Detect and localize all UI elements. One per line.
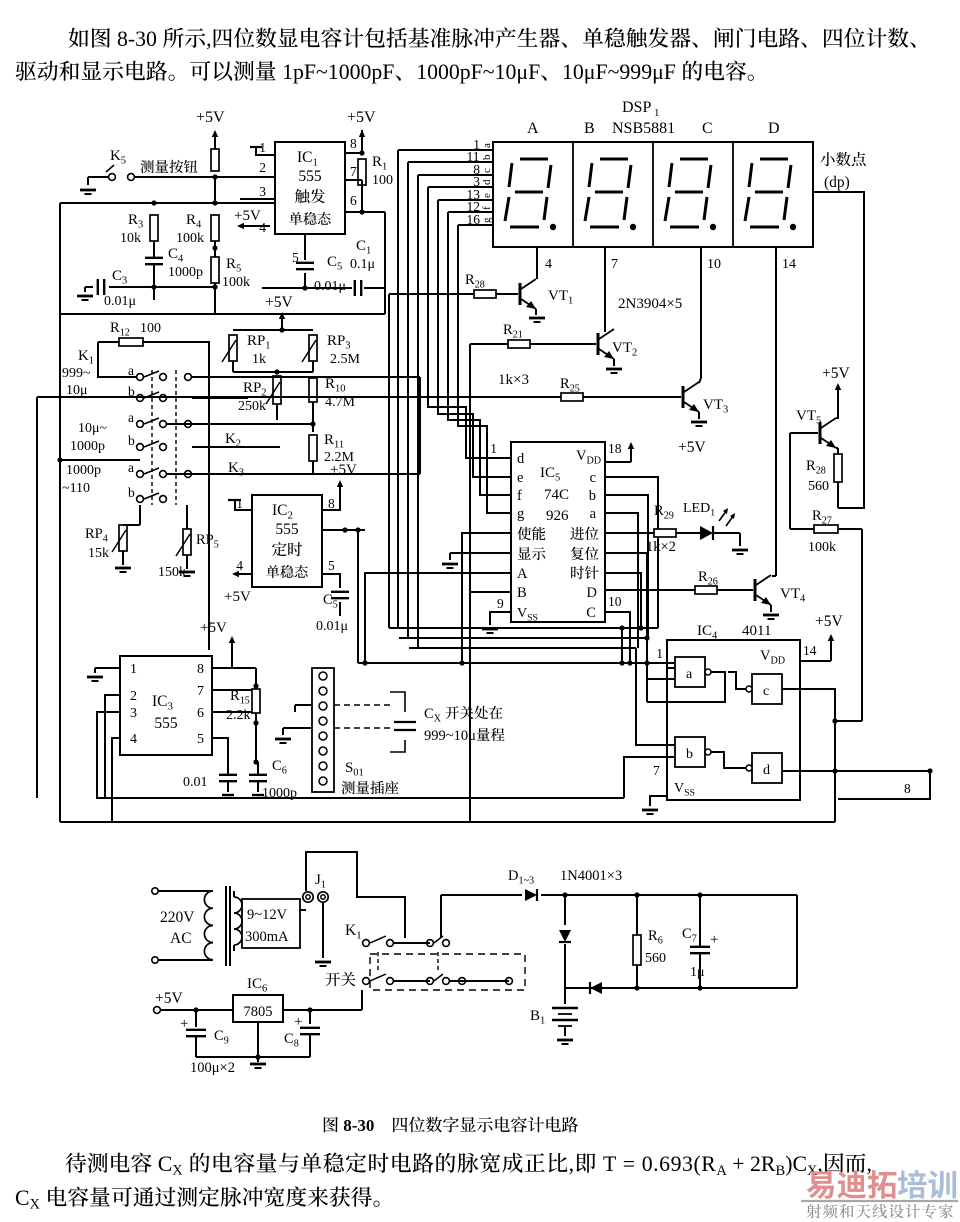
svg-text:B: B bbox=[517, 585, 527, 601]
svg-text:5: 5 bbox=[197, 732, 204, 747]
svg-text:1000p: 1000p bbox=[66, 463, 101, 478]
svg-text:1: 1 bbox=[321, 880, 326, 891]
svg-text:3: 3 bbox=[168, 701, 173, 713]
svg-text:0.01μ: 0.01μ bbox=[314, 279, 346, 294]
svg-text:RP: RP bbox=[243, 380, 261, 396]
svg-text:100k: 100k bbox=[222, 275, 250, 290]
svg-text:R: R bbox=[226, 256, 236, 272]
svg-text:g: g bbox=[481, 217, 493, 223]
svg-text:B: B bbox=[530, 1008, 540, 1024]
svg-text:6: 6 bbox=[282, 766, 287, 777]
svg-text:R: R bbox=[648, 928, 658, 944]
svg-text:4: 4 bbox=[800, 594, 806, 605]
svg-text:+5V: +5V bbox=[200, 620, 227, 636]
svg-text:4: 4 bbox=[236, 558, 243, 573]
svg-text:100: 100 bbox=[140, 321, 161, 336]
svg-text:g: g bbox=[517, 506, 524, 522]
svg-text:5: 5 bbox=[236, 264, 241, 275]
svg-text:C: C bbox=[15, 1186, 30, 1210]
svg-text:S: S bbox=[345, 760, 353, 776]
svg-text:3: 3 bbox=[130, 706, 137, 721]
svg-text:100μ×2: 100μ×2 bbox=[190, 1060, 235, 1076]
svg-text:R: R bbox=[698, 569, 708, 585]
svg-text:28: 28 bbox=[816, 466, 826, 477]
svg-text:f: f bbox=[517, 488, 522, 504]
svg-text:C: C bbox=[323, 592, 333, 608]
svg-text:RP: RP bbox=[247, 333, 265, 349]
svg-text:D: D bbox=[508, 868, 518, 884]
svg-text:R: R bbox=[186, 212, 196, 228]
svg-text:15k: 15k bbox=[88, 546, 109, 561]
svg-text:7: 7 bbox=[611, 257, 618, 272]
svg-text:C: C bbox=[112, 268, 122, 284]
svg-text:4: 4 bbox=[178, 254, 184, 265]
svg-text:+5V: +5V bbox=[815, 613, 843, 630]
svg-text:e: e bbox=[517, 470, 523, 486]
svg-text:IC: IC bbox=[247, 976, 262, 992]
svg-text:555: 555 bbox=[298, 168, 322, 185]
svg-text:X: X bbox=[434, 714, 442, 725]
svg-text:29: 29 bbox=[664, 511, 674, 522]
svg-text:7: 7 bbox=[197, 684, 204, 699]
svg-text:V: V bbox=[760, 648, 771, 664]
svg-text:1μ: 1μ bbox=[690, 965, 705, 980]
svg-text:C: C bbox=[168, 246, 178, 262]
svg-text:999~10μ: 999~10μ bbox=[424, 728, 476, 744]
svg-text:250k: 250k bbox=[238, 399, 266, 414]
svg-text:C: C bbox=[214, 1028, 224, 1044]
svg-text:RP: RP bbox=[196, 532, 214, 548]
svg-text:R: R bbox=[372, 154, 382, 170]
svg-text:8-30: 8-30 bbox=[117, 27, 157, 51]
svg-text:IC: IC bbox=[297, 149, 313, 166]
svg-text:NSB5881: NSB5881 bbox=[612, 120, 675, 137]
svg-text:C: C bbox=[284, 1031, 294, 1047]
svg-text:560: 560 bbox=[808, 479, 829, 494]
svg-text:220V: 220V bbox=[160, 909, 195, 926]
svg-text:a: a bbox=[128, 410, 134, 425]
svg-text:d: d bbox=[481, 179, 493, 185]
svg-text:0.01μ: 0.01μ bbox=[316, 619, 348, 634]
svg-text:c: c bbox=[590, 470, 596, 486]
svg-text:1: 1 bbox=[568, 296, 573, 307]
svg-text:7: 7 bbox=[350, 164, 357, 179]
svg-text:7: 7 bbox=[653, 763, 660, 778]
svg-text:c: c bbox=[763, 684, 769, 699]
svg-text:3: 3 bbox=[723, 405, 728, 416]
svg-text:R: R bbox=[324, 432, 334, 448]
svg-text:C: C bbox=[158, 1152, 173, 1176]
svg-text:1: 1 bbox=[89, 356, 94, 367]
svg-text:RP: RP bbox=[327, 333, 345, 349]
svg-text:8-30: 8-30 bbox=[343, 1116, 374, 1135]
svg-text:16: 16 bbox=[467, 212, 481, 227]
svg-text:b: b bbox=[481, 154, 493, 160]
svg-text:2: 2 bbox=[130, 689, 137, 704]
svg-text:100k: 100k bbox=[176, 231, 204, 246]
svg-text:14: 14 bbox=[803, 643, 817, 658]
svg-text:IC: IC bbox=[272, 502, 288, 519]
svg-text:6: 6 bbox=[350, 193, 357, 208]
svg-text:27: 27 bbox=[822, 516, 832, 527]
svg-text:=: = bbox=[623, 1152, 636, 1176]
svg-text:)C: )C bbox=[785, 1152, 807, 1176]
svg-text:C: C bbox=[702, 120, 713, 137]
svg-text:+: + bbox=[732, 1152, 744, 1176]
svg-text:B: B bbox=[776, 1163, 786, 1179]
svg-text:100: 100 bbox=[372, 173, 393, 188]
svg-text:555: 555 bbox=[275, 521, 299, 538]
svg-text:5: 5 bbox=[816, 416, 821, 427]
svg-text:2N3904×5: 2N3904×5 bbox=[618, 296, 682, 312]
svg-text:6: 6 bbox=[658, 936, 663, 947]
svg-text:7: 7 bbox=[692, 934, 697, 945]
svg-text:9~12V: 9~12V bbox=[247, 907, 288, 923]
svg-text:K: K bbox=[110, 148, 121, 164]
svg-text:+5V: +5V bbox=[155, 990, 183, 1007]
svg-text:R: R bbox=[654, 503, 664, 519]
svg-text:a: a bbox=[481, 143, 493, 148]
svg-text:999~: 999~ bbox=[62, 366, 91, 381]
svg-text:10μ: 10μ bbox=[66, 383, 88, 398]
svg-text:6: 6 bbox=[197, 706, 204, 721]
svg-text:K: K bbox=[345, 922, 357, 939]
svg-text:2: 2 bbox=[259, 160, 266, 175]
svg-text:A: A bbox=[716, 1163, 727, 1179]
svg-text:9: 9 bbox=[224, 1036, 229, 1047]
svg-text:VT: VT bbox=[780, 586, 800, 602]
svg-text:DD: DD bbox=[587, 456, 602, 467]
svg-text:74C: 74C bbox=[544, 487, 569, 503]
svg-text:0.1μ: 0.1μ bbox=[350, 257, 375, 272]
svg-text:6: 6 bbox=[262, 984, 267, 995]
svg-text:,: , bbox=[206, 27, 211, 51]
svg-text:VT: VT bbox=[548, 288, 568, 304]
svg-text:25: 25 bbox=[570, 384, 580, 395]
svg-text:B: B bbox=[584, 120, 595, 137]
svg-text:C: C bbox=[356, 238, 366, 254]
svg-text:LED: LED bbox=[683, 501, 710, 516]
svg-text:b: b bbox=[686, 747, 693, 762]
svg-text:100k: 100k bbox=[808, 540, 836, 555]
svg-text:C: C bbox=[272, 758, 282, 774]
svg-text:8: 8 bbox=[904, 781, 911, 796]
svg-text:926: 926 bbox=[546, 508, 569, 524]
svg-text:+5V: +5V bbox=[224, 589, 251, 605]
svg-text:1: 1 bbox=[356, 930, 361, 942]
svg-text:D: D bbox=[587, 585, 597, 601]
svg-text:1k: 1k bbox=[252, 352, 266, 367]
svg-text:A: A bbox=[527, 120, 539, 137]
svg-text:C: C bbox=[682, 926, 692, 942]
svg-text:C: C bbox=[424, 706, 434, 722]
svg-text:12: 12 bbox=[120, 328, 130, 339]
svg-text:10μ~: 10μ~ bbox=[78, 421, 108, 436]
svg-text:+5V: +5V bbox=[822, 365, 850, 382]
svg-text:3: 3 bbox=[138, 220, 143, 231]
svg-text:8: 8 bbox=[350, 136, 357, 151]
svg-text:1: 1 bbox=[382, 162, 387, 173]
svg-text:4: 4 bbox=[196, 220, 202, 231]
svg-text:2: 2 bbox=[288, 510, 293, 522]
svg-text:1000p: 1000p bbox=[168, 265, 203, 280]
svg-text:1: 1 bbox=[490, 441, 497, 456]
svg-text:(dp): (dp) bbox=[824, 174, 850, 191]
svg-text:c: c bbox=[481, 168, 493, 173]
svg-text:a: a bbox=[128, 460, 134, 475]
svg-text:+5V: +5V bbox=[678, 439, 706, 456]
svg-text:1000pF~10μF: 1000pF~10μF bbox=[416, 60, 540, 84]
svg-text:21: 21 bbox=[513, 330, 523, 341]
svg-text:8: 8 bbox=[328, 496, 335, 511]
svg-text:1: 1 bbox=[313, 157, 318, 169]
svg-text:f: f bbox=[481, 206, 493, 210]
svg-text:V: V bbox=[576, 448, 587, 464]
svg-text:C: C bbox=[586, 605, 596, 621]
svg-text:2R: 2R bbox=[750, 1152, 776, 1176]
svg-text:5: 5 bbox=[555, 473, 560, 484]
svg-text:1k×3: 1k×3 bbox=[498, 372, 529, 388]
svg-text:10: 10 bbox=[707, 257, 721, 272]
svg-text:b: b bbox=[128, 433, 135, 448]
svg-text:2.2k: 2.2k bbox=[226, 708, 251, 723]
svg-text:3: 3 bbox=[259, 184, 266, 199]
svg-text:5: 5 bbox=[214, 540, 219, 551]
svg-text:a: a bbox=[686, 667, 693, 682]
svg-text:2.5M: 2.5M bbox=[330, 352, 361, 367]
svg-text:1: 1 bbox=[654, 107, 660, 119]
svg-text:4: 4 bbox=[103, 534, 108, 545]
svg-text:560: 560 bbox=[645, 951, 666, 966]
svg-text:K: K bbox=[225, 431, 236, 447]
svg-text:5: 5 bbox=[121, 156, 126, 167]
svg-text:+5V: +5V bbox=[347, 109, 376, 126]
svg-text:a: a bbox=[590, 506, 597, 522]
svg-text:1: 1 bbox=[540, 1016, 545, 1027]
svg-text:SS: SS bbox=[684, 788, 695, 799]
svg-text:RP: RP bbox=[85, 526, 103, 542]
svg-text:R: R bbox=[325, 376, 335, 392]
svg-text:3: 3 bbox=[345, 341, 350, 352]
svg-text:2: 2 bbox=[632, 348, 637, 359]
svg-text:0.01: 0.01 bbox=[183, 775, 208, 790]
svg-text:1000p: 1000p bbox=[70, 439, 105, 454]
svg-text:1: 1 bbox=[366, 246, 371, 257]
svg-text:1: 1 bbox=[710, 508, 715, 519]
svg-text:1000p: 1000p bbox=[262, 786, 297, 801]
svg-text:X: X bbox=[172, 1163, 183, 1179]
svg-text:9: 9 bbox=[497, 596, 504, 611]
svg-text:,: , bbox=[569, 1152, 575, 1176]
svg-text:R: R bbox=[128, 212, 138, 228]
svg-text:,: , bbox=[867, 1152, 872, 1176]
svg-text:+5V: +5V bbox=[265, 294, 293, 311]
svg-text:b: b bbox=[128, 485, 135, 500]
svg-text:V: V bbox=[674, 781, 684, 796]
svg-text:e: e bbox=[481, 193, 493, 198]
svg-text:b: b bbox=[589, 488, 596, 504]
svg-text:1: 1 bbox=[236, 496, 243, 511]
svg-text:~110: ~110 bbox=[62, 481, 90, 496]
svg-text:8: 8 bbox=[197, 662, 204, 677]
svg-text:555: 555 bbox=[154, 715, 178, 732]
svg-text:C: C bbox=[327, 254, 337, 270]
svg-text:+5V: +5V bbox=[330, 462, 357, 478]
svg-text:0.01μ: 0.01μ bbox=[104, 294, 136, 309]
svg-text:DSP: DSP bbox=[622, 99, 651, 116]
svg-text:01: 01 bbox=[353, 768, 364, 779]
svg-text:SS: SS bbox=[527, 613, 538, 624]
svg-text:+5V: +5V bbox=[196, 109, 225, 126]
svg-text:1k×2: 1k×2 bbox=[646, 539, 676, 555]
svg-text:11: 11 bbox=[334, 440, 344, 451]
svg-text:10: 10 bbox=[335, 384, 346, 395]
svg-text:T: T bbox=[603, 1152, 617, 1176]
svg-text:5: 5 bbox=[337, 262, 342, 273]
svg-text:3: 3 bbox=[122, 276, 127, 287]
svg-text:15: 15 bbox=[240, 696, 250, 707]
svg-text:DD: DD bbox=[771, 656, 786, 667]
svg-text:1: 1 bbox=[265, 341, 270, 352]
svg-text:4: 4 bbox=[259, 220, 266, 235]
svg-text:A: A bbox=[517, 566, 528, 582]
svg-text:1N4001×3: 1N4001×3 bbox=[560, 868, 622, 884]
svg-text:d: d bbox=[517, 451, 525, 467]
svg-text:5: 5 bbox=[333, 600, 338, 611]
svg-text:D: D bbox=[768, 120, 780, 137]
svg-text:VT: VT bbox=[612, 340, 632, 356]
svg-text:R: R bbox=[110, 320, 120, 336]
svg-text:7805: 7805 bbox=[244, 1004, 273, 1020]
svg-text:R: R bbox=[560, 376, 570, 392]
svg-text:R: R bbox=[503, 322, 513, 338]
svg-text:28: 28 bbox=[475, 280, 485, 291]
svg-text:AC: AC bbox=[170, 930, 192, 947]
svg-text:1pF~1000pF: 1pF~1000pF bbox=[282, 60, 394, 84]
svg-text:14: 14 bbox=[782, 257, 796, 272]
svg-text:R: R bbox=[812, 508, 822, 524]
svg-text:R: R bbox=[465, 272, 475, 288]
svg-text:R: R bbox=[806, 458, 816, 474]
svg-text:+5V: +5V bbox=[234, 208, 261, 224]
svg-text:26: 26 bbox=[708, 577, 718, 588]
svg-text:IC: IC bbox=[540, 465, 555, 481]
svg-text:18: 18 bbox=[608, 441, 622, 456]
svg-text:V: V bbox=[517, 606, 527, 621]
svg-text:5: 5 bbox=[328, 558, 335, 573]
svg-text:4011: 4011 bbox=[742, 623, 771, 639]
svg-text:1~3: 1~3 bbox=[519, 876, 535, 887]
svg-text:1: 1 bbox=[656, 646, 663, 661]
svg-text:d: d bbox=[763, 763, 770, 778]
svg-text:4: 4 bbox=[130, 732, 137, 747]
svg-text:0.693(R: 0.693(R bbox=[642, 1152, 717, 1176]
svg-text:VT: VT bbox=[796, 408, 816, 424]
svg-text:10: 10 bbox=[608, 594, 622, 609]
svg-text:300mA: 300mA bbox=[245, 929, 289, 945]
svg-text:IC: IC bbox=[697, 623, 712, 639]
svg-text:1: 1 bbox=[130, 662, 137, 677]
svg-text:10μF~999μF: 10μF~999μF bbox=[562, 60, 676, 84]
svg-text:8: 8 bbox=[294, 1039, 299, 1050]
svg-text:VT: VT bbox=[703, 397, 723, 413]
svg-text:R: R bbox=[230, 688, 240, 704]
svg-text:10k: 10k bbox=[120, 231, 141, 246]
svg-text:K: K bbox=[78, 348, 89, 364]
svg-text:a: a bbox=[128, 363, 134, 378]
svg-text:IC: IC bbox=[152, 693, 168, 710]
svg-text:+: + bbox=[710, 932, 718, 948]
svg-text:4: 4 bbox=[545, 257, 552, 272]
svg-text:X: X bbox=[30, 1197, 41, 1213]
